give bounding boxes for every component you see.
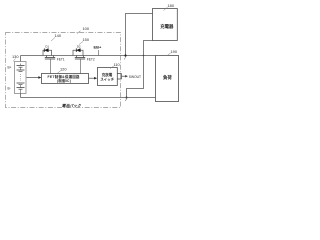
leader tick for 150 bbox=[79, 42, 83, 45]
caption 電池パック bbox=[62, 103, 82, 108]
leader tick for 100 bbox=[77, 31, 81, 34]
output line with arrow bbox=[122, 75, 127, 77]
svg-text:150: 150 bbox=[83, 37, 90, 42]
battery cell 1-2 link bbox=[20, 64, 22, 71]
svg-text:140: 140 bbox=[55, 33, 62, 38]
control IC box 120 bbox=[42, 74, 89, 84]
svg-text:B+: B+ bbox=[8, 66, 12, 70]
box 110 output stubs bbox=[117, 74, 121, 80]
svg-text:EB+: EB+ bbox=[94, 45, 103, 50]
junction dot at bottom rail bbox=[126, 97, 128, 99]
transistor FET2 bbox=[77, 56, 84, 58]
label 100 bbox=[83, 26, 90, 31]
svg-text:FET1: FET1 bbox=[57, 57, 65, 61]
FET2 gate lead bbox=[80, 59, 82, 74]
label 180 bbox=[168, 3, 175, 8]
crossing blob at rail bbox=[143, 55, 145, 57]
leader tick for 190 bbox=[167, 53, 171, 56]
battery bottom lead bbox=[20, 89, 22, 93]
wire top positive rail bbox=[21, 55, 156, 57]
battery cell 4 bbox=[17, 88, 25, 90]
load text 負荷 bbox=[163, 74, 172, 81]
battery cell 3-4 link bbox=[20, 85, 22, 88]
battery cell 1 bbox=[17, 66, 25, 68]
svg-text:充放電: 充放電 bbox=[102, 72, 113, 77]
junction tick bbox=[124, 57, 126, 60]
arrow IC to box 110 bbox=[89, 77, 96, 79]
label D1 bbox=[45, 44, 49, 48]
svg-text:SWOUT: SWOUT bbox=[129, 75, 141, 79]
label 110 bbox=[114, 62, 121, 67]
charger box 180 bbox=[153, 9, 178, 41]
leader tick for 120 bbox=[57, 71, 61, 74]
battery dotted continuation bbox=[20, 74, 22, 81]
battery box 130 bbox=[15, 62, 27, 94]
label B+ bbox=[8, 66, 12, 70]
battery cell 2 bbox=[17, 70, 25, 72]
node EB+ stub bbox=[97, 50, 99, 56]
label FET2 bbox=[87, 57, 95, 61]
svg-text:180: 180 bbox=[168, 3, 175, 8]
wire charger plus: rail junction up to charger bbox=[126, 14, 153, 56]
wire battery minus drop bbox=[20, 94, 22, 98]
box 110 bbox=[98, 68, 118, 86]
diode D1 symbol bbox=[43, 48, 45, 52]
label FET1 bbox=[57, 57, 65, 61]
battery pack dash-dot border 100 bbox=[6, 33, 121, 108]
svg-text:B-: B- bbox=[8, 87, 11, 91]
svg-text:負荷: 負荷 bbox=[163, 74, 172, 81]
svg-text:D1: D1 bbox=[45, 44, 49, 48]
label D2 bbox=[77, 44, 81, 48]
svg-text:スイッチ: スイッチ bbox=[100, 76, 114, 81]
diode D2 symbol bbox=[75, 48, 77, 52]
box 110 text bbox=[102, 72, 113, 77]
svg-text:190: 190 bbox=[171, 49, 178, 54]
FET1 gate lead bbox=[50, 59, 52, 74]
svg-text:120: 120 bbox=[60, 67, 67, 72]
leader tick for 140 bbox=[51, 38, 55, 42]
load box 190 bbox=[156, 56, 179, 102]
charger text 充電器 bbox=[160, 23, 174, 30]
leader tick for 180 bbox=[164, 7, 168, 10]
svg-text:130: 130 bbox=[12, 54, 19, 59]
label SWOUT bbox=[129, 75, 141, 79]
label 150 bbox=[83, 37, 90, 42]
svg-text:D2: D2 bbox=[77, 44, 81, 48]
label B- bbox=[8, 87, 11, 91]
junction dot at charger plus tap bbox=[124, 54, 126, 56]
FET2 body diode loop D2 bbox=[73, 50, 83, 55]
transistor FET1 bbox=[47, 56, 54, 58]
FET1 body diode loop D1 bbox=[43, 50, 52, 55]
label EB+ bbox=[94, 45, 103, 50]
svg-text:FET2: FET2 bbox=[87, 57, 95, 61]
label 190 bbox=[171, 49, 178, 54]
svg-text:充電器: 充電器 bbox=[160, 23, 174, 30]
leader tick for 110 bbox=[110, 66, 114, 68]
battery cell 3 bbox=[17, 83, 25, 85]
output joining bar bbox=[121, 74, 123, 80]
arrow battery to IC bbox=[27, 77, 40, 79]
leader tick for 130 bbox=[13, 59, 16, 62]
wire charger minus: down and across to bottom rail bbox=[127, 41, 153, 98]
svg-text:(制御IC): (制御IC) bbox=[57, 78, 71, 83]
svg-text:電池パック: 電池パック bbox=[62, 103, 82, 108]
svg-text:100: 100 bbox=[83, 26, 90, 31]
control IC text bbox=[48, 74, 81, 79]
svg-text:110: 110 bbox=[114, 62, 121, 67]
wire bottom negative rail bbox=[21, 97, 156, 99]
label 130 bbox=[12, 54, 19, 59]
label 140 bbox=[55, 33, 62, 38]
junction tick bottom bbox=[125, 98, 127, 101]
label 120 bbox=[60, 67, 67, 72]
wire battery plus riser bbox=[20, 56, 22, 62]
